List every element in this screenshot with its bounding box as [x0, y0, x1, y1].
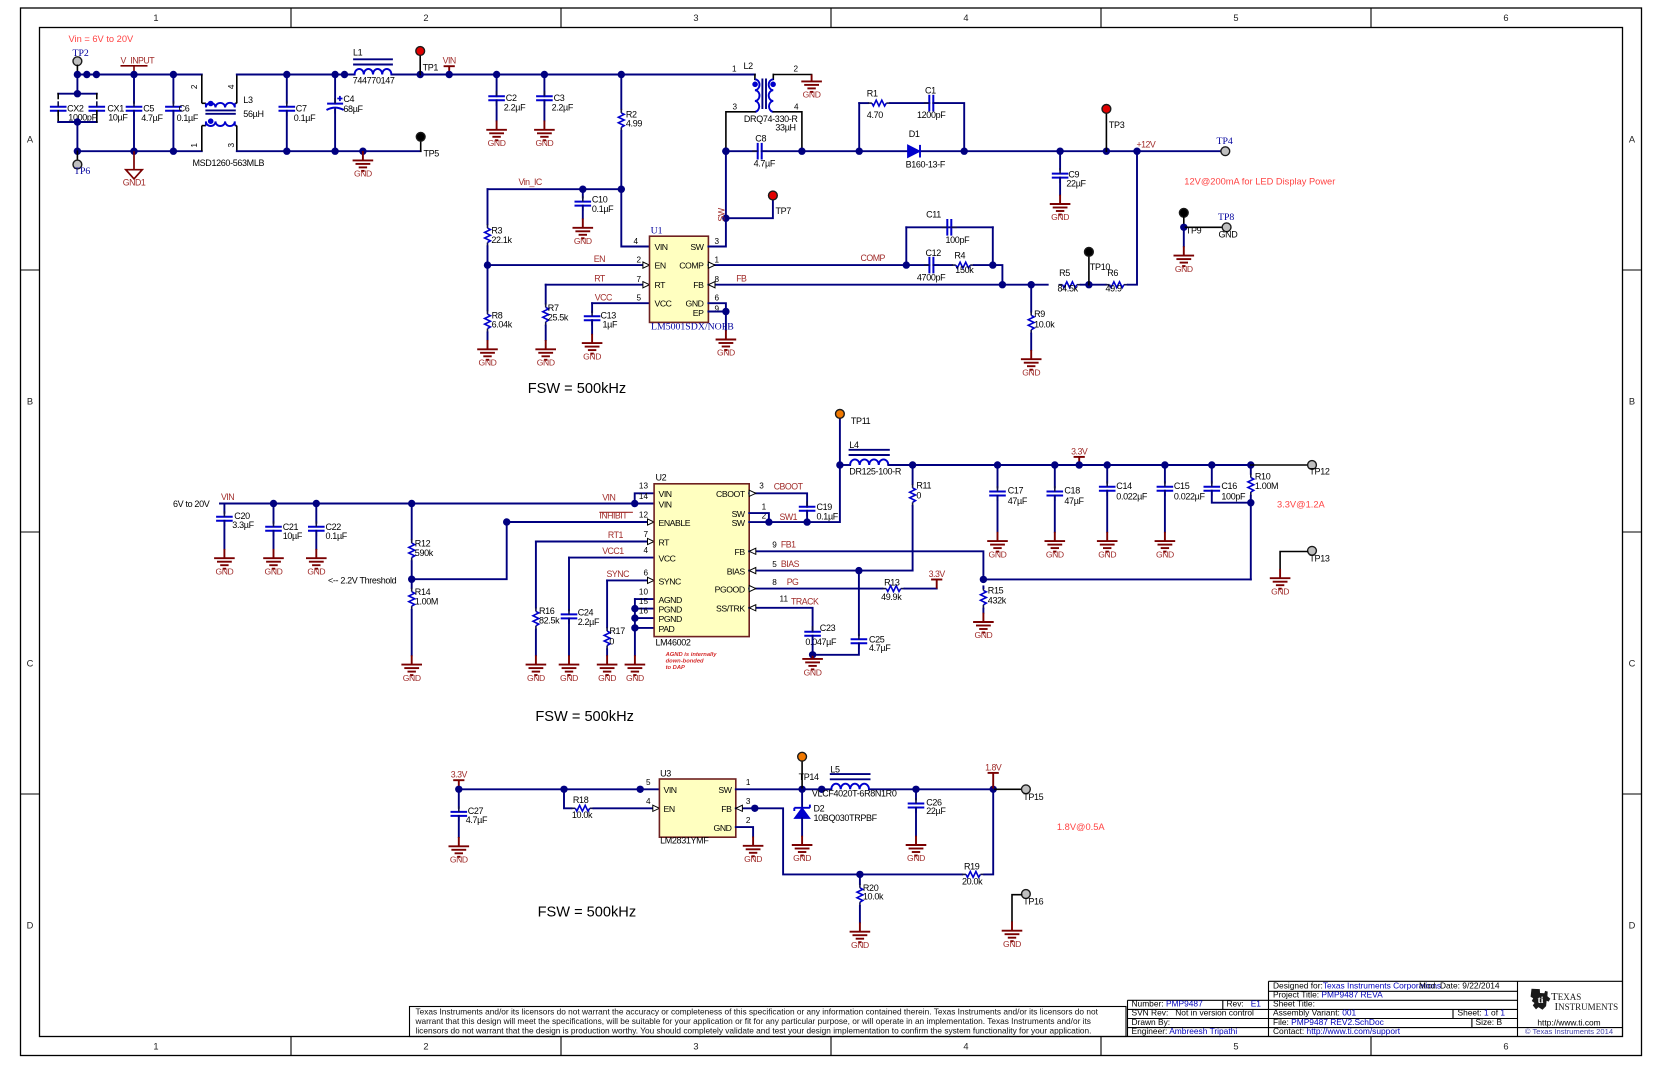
wire VCC [592, 302, 649, 304]
wire C5 top lead [133, 75, 135, 103]
wire C15 bottom lead [1164, 491, 1166, 532]
wire AGND stub [635, 598, 654, 600]
svg-text:590k: 590k [415, 548, 434, 558]
capacitor C5 [126, 107, 143, 111]
svg-text:RT1: RT1 [608, 530, 624, 540]
ground TP9 [1174, 246, 1195, 266]
wire TP10 to R6 [1089, 284, 1106, 286]
capacitor C19 [799, 507, 816, 511]
wire TP5 stem [420, 141, 422, 151]
svg-text:Vin_IC: Vin_IC [519, 177, 543, 187]
wire R12 bottom lead [411, 561, 413, 588]
svg-text:84.5k: 84.5k [1058, 284, 1079, 294]
capacitor C3 [536, 96, 553, 100]
svg-text:15: 15 [639, 597, 649, 606]
svg-text:BIAS: BIAS [727, 567, 746, 577]
wire C18 top lead [1054, 465, 1056, 488]
svg-text:C8: C8 [755, 133, 766, 143]
junction C4 top [331, 71, 338, 78]
ground C18 [1045, 532, 1066, 552]
svg-text:TP1: TP1 [423, 63, 439, 73]
svg-text:6: 6 [643, 569, 648, 578]
test point TP9 [1179, 208, 1188, 217]
disclaimer box [410, 1007, 1127, 1037]
svg-text:7: 7 [643, 530, 648, 539]
wire R20 top lead [859, 874, 861, 884]
wire R19 to 1.8V [984, 789, 993, 874]
svg-text:TP5: TP5 [424, 149, 440, 159]
svg-text:4.70: 4.70 [867, 110, 883, 120]
wire R20 bottom lead [859, 906, 861, 922]
svg-text:5: 5 [1233, 1042, 1238, 1052]
wire L4 left lead [840, 464, 850, 466]
svg-text:TP4: TP4 [1217, 136, 1233, 147]
wire COMP [708, 264, 906, 266]
ground R9 [1021, 350, 1042, 370]
junction PGND15 [631, 605, 638, 612]
svg-text:PAD: PAD [659, 624, 675, 634]
junction TP14 [798, 786, 805, 793]
svg-text:68µF: 68µF [343, 104, 363, 114]
svg-text:TP12: TP12 [1309, 466, 1329, 476]
wire PAD stub [635, 627, 654, 629]
svg-text:TP14: TP14 [799, 772, 819, 782]
svg-text:B: B [1629, 397, 1635, 407]
svg-text:47µF: 47µF [1008, 496, 1028, 506]
junction dot [93, 71, 100, 78]
test point TP6 [73, 160, 82, 169]
svg-text:FB: FB [721, 804, 732, 814]
svg-text:GND: GND [1219, 230, 1239, 240]
test point TP7 [769, 191, 778, 200]
junction COMP C11 [903, 261, 910, 268]
svg-text:49.9: 49.9 [1106, 284, 1122, 294]
junction TP1 [417, 71, 424, 78]
test point TP13 [1308, 546, 1317, 555]
svg-text:2.2µF: 2.2µF [578, 617, 600, 627]
wire cap box bottom [58, 121, 97, 123]
svg-text:56µH: 56µH [243, 109, 263, 119]
resistor R12 [409, 543, 415, 557]
wire EP stub [708, 311, 726, 313]
ground TP13 [1270, 569, 1291, 589]
power port GND1 [126, 151, 142, 179]
svg-text:22µF: 22µF [926, 806, 946, 816]
svg-text:GND: GND [907, 853, 925, 863]
junction EN divider [484, 261, 491, 268]
svg-text:4: 4 [646, 797, 651, 806]
svg-text:<-- 2.2V Threshold: <-- 2.2V Threshold [328, 576, 397, 586]
junction C5 bottom [130, 148, 137, 155]
svg-text:VIN: VIN [664, 785, 677, 795]
test point TP12 [1308, 461, 1317, 470]
wire R4 right lead [974, 264, 993, 266]
svg-text:4: 4 [794, 102, 799, 111]
svg-text:FB: FB [693, 280, 704, 290]
svg-text:3.3V: 3.3V [1071, 446, 1088, 456]
junction C8 right [798, 148, 805, 155]
svg-text:22µF: 22µF [1066, 179, 1086, 189]
svg-text:47µF: 47µF [1064, 496, 1084, 506]
wire VIN pin13 [635, 493, 654, 503]
svg-text:2: 2 [190, 84, 199, 89]
pin arrow FB U3 [736, 805, 743, 811]
wire C6 bottom lead [172, 111, 174, 151]
wire C5 bottom lead [133, 111, 135, 151]
junction C7 bottom [283, 148, 290, 155]
svg-text:0.022µF: 0.022µF [1116, 491, 1148, 501]
svg-text:licensors do not warrant that: licensors do not warrant that the design… [416, 1026, 1092, 1036]
svg-text:0.022µF: 0.022µF [1174, 491, 1206, 501]
wire D2 cathode lead [801, 789, 803, 808]
capacitor C8 [758, 143, 762, 160]
wire R2 to VinIC [620, 131, 622, 189]
junction C14 [1104, 461, 1111, 468]
ground bottom rail [353, 151, 374, 171]
wire C15 top lead [1164, 465, 1166, 483]
wire C25 bottom [813, 643, 859, 655]
wire U3 SW rail2 [869, 788, 993, 790]
junction C18 [1051, 461, 1058, 468]
resistor R17 [604, 631, 610, 645]
pin numbers U3 [646, 778, 751, 825]
wire C13 top lead [591, 303, 593, 312]
wire R12 top lead [411, 504, 413, 540]
disclaimer text [415, 1006, 1099, 1035]
wire top rail left [77, 74, 201, 76]
wire C10 bottom lead [582, 206, 584, 219]
wire TP3 stem [1105, 113, 1107, 151]
ground C27 [449, 837, 470, 857]
wire R7 bottom lead [545, 326, 547, 340]
junction VIN port [446, 71, 453, 78]
svg-text:TP10: TP10 [1090, 262, 1110, 272]
svg-text:PGND: PGND [659, 614, 682, 624]
IC U3 LM2831YMF body [659, 779, 735, 837]
wire CBOOT [749, 493, 807, 507]
wire TP16 gnd [1012, 895, 1022, 922]
wire D2 anode lead [801, 818, 803, 835]
svg-text:GND: GND [215, 566, 233, 576]
resistor R19 [966, 872, 980, 878]
junction 12V node [1133, 148, 1140, 155]
wire CX1 bottom lead [96, 111, 98, 122]
wire R10 top lead [1250, 465, 1252, 474]
svg-text:SW: SW [717, 207, 727, 221]
svg-text:SS/TRK: SS/TRK [716, 604, 745, 614]
capacitor C6 [165, 107, 182, 111]
svg-text:C14: C14 [1116, 481, 1132, 491]
inductor L4 [850, 459, 888, 465]
pin names U3 [664, 785, 733, 833]
svg-text:1: 1 [732, 64, 737, 73]
wire U3 VIN rail [459, 788, 660, 790]
test point TP1 [416, 47, 425, 56]
diode D2 [794, 805, 810, 819]
wire TP12 link [1251, 464, 1308, 466]
svg-text:GND: GND [626, 673, 644, 683]
svg-text:5: 5 [646, 778, 651, 787]
junction C2 top [493, 71, 500, 78]
svg-text:ti: ti [1538, 996, 1544, 1006]
wire C19 bottom lead [806, 511, 808, 522]
svg-text:VIN: VIN [602, 492, 615, 502]
svg-text:150k: 150k [955, 265, 974, 275]
ground L2 pin2 [801, 75, 822, 92]
junction R20 top [856, 871, 863, 878]
wire R9 top lead [1030, 285, 1032, 312]
svg-text:to DAP: to DAP [666, 665, 685, 671]
svg-text:GND: GND [803, 90, 821, 100]
test point TP2 [73, 57, 82, 66]
svg-text:9: 9 [772, 541, 777, 550]
wire TP15 link [993, 788, 1021, 790]
wire FB [708, 284, 1002, 286]
TI logo [1531, 989, 1619, 1013]
svg-text:4: 4 [633, 237, 638, 246]
junction bottom rail TP6 [74, 148, 81, 155]
wire comp to FB [993, 265, 1003, 285]
svg-text:1: 1 [153, 1042, 158, 1052]
svg-text:12: 12 [639, 511, 649, 520]
junction 3.3V port [1076, 461, 1083, 468]
capacitor C4 [327, 96, 344, 110]
net label INHIBIT [599, 511, 633, 521]
svg-text:U1: U1 [651, 225, 663, 236]
svg-text:3: 3 [227, 143, 236, 148]
svg-text:A: A [1629, 135, 1636, 145]
wire R7 top lead [545, 285, 547, 304]
svg-text:GND: GND [851, 940, 869, 950]
wire C25 top lead [858, 571, 860, 636]
svg-text:B160-13-F: B160-13-F [906, 159, 946, 169]
wire C21 top lead [273, 504, 275, 523]
pin numbers U1 [633, 237, 719, 314]
svg-text:25.5k: 25.5k [548, 312, 569, 322]
wire C2 bottom lead [496, 100, 498, 120]
wire R17 top lead [606, 580, 608, 627]
wire PGND16 stub [635, 617, 654, 619]
title block grid [1128, 981, 1623, 1036]
junction C22 [313, 500, 320, 507]
svg-text:RT: RT [659, 538, 671, 548]
capacitor C26 [908, 804, 925, 808]
test point TP4 [1221, 147, 1230, 156]
wire TP2 stem [76, 65, 78, 74]
power port 3.3V u3 [453, 780, 464, 789]
test point TP3 [1102, 105, 1111, 114]
wire R1 left lead [859, 102, 868, 104]
svg-text:FB1: FB1 [781, 540, 796, 550]
wire R14 bottom lead [411, 610, 413, 655]
capacitor C23 [804, 632, 821, 636]
svg-text:TP11: TP11 [851, 416, 871, 426]
svg-text:0.1µF: 0.1µF [294, 113, 316, 123]
power port 3.3V rail [1074, 457, 1085, 465]
wire TP8 link [1184, 226, 1223, 228]
junction fb node [1247, 499, 1254, 506]
wire C27 bottom lead [458, 816, 460, 837]
svg-text:20.0k: 20.0k [962, 876, 983, 886]
capacitor C22 [308, 527, 325, 531]
pin arrow CBOOT out [749, 490, 756, 496]
pin names U2 [659, 489, 746, 634]
svg-text:10BQ030TRPBF: 10BQ030TRPBF [814, 813, 878, 823]
wire C11 left [905, 227, 907, 265]
pin names U1 [655, 242, 705, 318]
wire FB1 [749, 551, 1251, 579]
svg-text:PG: PG [787, 577, 799, 587]
svg-text:2.2µF: 2.2µF [552, 102, 574, 112]
capacitor C20 [216, 517, 233, 521]
svg-text:10: 10 [639, 587, 649, 596]
svg-text:1: 1 [153, 13, 158, 23]
resistor R10 [1248, 478, 1254, 492]
svg-text:EN: EN [655, 260, 666, 270]
wire R13 right lead [905, 588, 937, 590]
svg-text:COMP: COMP [679, 260, 704, 270]
resistor R4 [956, 262, 970, 268]
wire C21 bottom lead [273, 531, 275, 549]
IC U2 LM46002 body [654, 484, 749, 637]
junction snubber left [856, 148, 863, 155]
ground D2 [792, 836, 813, 856]
svg-text:2.2µF: 2.2µF [504, 102, 526, 112]
svg-text:3: 3 [715, 237, 720, 246]
junction C21 [270, 500, 277, 507]
pin arrow FB in [708, 282, 715, 288]
svg-text:C18: C18 [1064, 486, 1080, 496]
ground C2 [486, 121, 507, 141]
svg-text:10.0k: 10.0k [863, 891, 884, 901]
wire C12 left lead [906, 264, 929, 266]
wire R16 bottom lead [535, 630, 537, 656]
wire snubber right [933, 103, 964, 151]
junction FB comp [999, 281, 1006, 288]
wire R16 top lead [535, 542, 537, 608]
wire C17 top lead [997, 465, 999, 488]
ground TP16 [1002, 921, 1023, 941]
svg-text:D: D [27, 921, 34, 931]
svg-text:TP16: TP16 [1023, 897, 1043, 907]
junction C15 [1161, 461, 1168, 468]
junction R15 top [980, 576, 987, 583]
svg-text:10µF: 10µF [108, 113, 128, 123]
svg-text:11: 11 [780, 595, 789, 604]
wire SYNC [607, 579, 654, 581]
wire C27 top lead [458, 789, 460, 808]
wire R5 to TP10 [1081, 284, 1089, 286]
resistor R16 [533, 611, 539, 625]
svg-text:0.047µF: 0.047µF [805, 637, 837, 647]
junction C7 top [283, 71, 290, 78]
svg-text:0: 0 [916, 490, 921, 500]
ground R17 [597, 655, 618, 675]
resistor R9 [1028, 315, 1034, 329]
svg-text:U2: U2 [656, 473, 667, 483]
svg-text:GND: GND [974, 630, 992, 640]
svg-text:C1: C1 [925, 86, 936, 96]
svg-text:1.8V@0.5A: 1.8V@0.5A [1057, 822, 1105, 832]
resistor R14 [409, 592, 415, 606]
svg-text:3: 3 [759, 482, 764, 491]
svg-text:GND: GND [744, 854, 762, 864]
svg-text:4: 4 [963, 1042, 968, 1052]
wire CX1 top lead [96, 94, 98, 99]
svg-text:FB: FB [734, 547, 745, 557]
svg-text:4.99: 4.99 [626, 119, 642, 129]
ground R7 [535, 340, 556, 360]
resistor R18 [575, 805, 589, 811]
svg-text:R11: R11 [916, 480, 931, 490]
junction C3 top [541, 71, 548, 78]
svg-text:12V@200mA for LED Display Powe: 12V@200mA for LED Display Power [1184, 176, 1335, 186]
svg-text:Vin = 6V to 20V: Vin = 6V to 20V [69, 34, 134, 44]
resistor R20 [857, 888, 863, 902]
svg-text:4.7µF: 4.7µF [141, 113, 163, 123]
svg-text:0.1µF: 0.1µF [177, 113, 199, 123]
wire U3 GND pin [736, 827, 753, 836]
junction PGND16 [631, 614, 638, 621]
pin arrow EN U3 [653, 805, 660, 811]
resistor R1 [872, 100, 886, 106]
junction FB stub [751, 805, 758, 812]
svg-text:VIN: VIN [655, 242, 668, 252]
svg-text:5: 5 [1233, 13, 1238, 23]
ground C17 [987, 532, 1008, 552]
svg-text:GND: GND [537, 358, 555, 368]
junction EP [722, 308, 729, 315]
ground C9 [1050, 195, 1071, 215]
svg-text:R1: R1 [867, 89, 878, 99]
wire C11 top [906, 226, 993, 228]
wire TRACK [749, 608, 812, 632]
svg-text:22.1k: 22.1k [491, 235, 512, 245]
test point TP11 [836, 410, 845, 419]
wire TP13 gnd [1280, 552, 1308, 569]
svg-text:33µH: 33µH [775, 123, 795, 133]
transformer L2 body [752, 79, 776, 112]
svg-text:C15: C15 [1174, 481, 1190, 491]
wire Vin_IC [488, 188, 622, 190]
svg-text:Engineer: Ambreesh Tripathi: Engineer: Ambreesh Tripathi [1132, 1026, 1238, 1036]
svg-text:GND: GND [989, 549, 1007, 559]
capacitor C9 [1052, 174, 1069, 178]
svg-text:C12: C12 [926, 248, 942, 258]
wire C7 bottom lead [286, 111, 288, 151]
junction C5 top [130, 71, 137, 78]
wire C16 bottom [1212, 491, 1251, 503]
svg-text:SW1: SW1 [780, 512, 798, 522]
svg-text:VIN: VIN [443, 56, 456, 66]
svg-text:CBOOT: CBOOT [774, 482, 804, 492]
diode D1 [908, 145, 920, 158]
svg-text:0.1µF: 0.1µF [326, 531, 348, 541]
svg-text:49.9k: 49.9k [881, 592, 902, 602]
wire TP9 stem [1183, 217, 1185, 227]
svg-text:R13: R13 [884, 577, 900, 587]
junction C9 [1056, 148, 1063, 155]
svg-text:5: 5 [636, 294, 641, 303]
svg-text:CBOOT: CBOOT [716, 489, 746, 499]
wire C24 top lead [568, 558, 570, 611]
wire bottom rail left [77, 150, 201, 152]
ground C13 [582, 334, 603, 354]
svg-text:BIAS: BIAS [781, 559, 800, 569]
pin arrow PGOOD out [749, 586, 756, 592]
wire C7 top lead [286, 75, 288, 103]
junction VIN pins [631, 500, 638, 507]
